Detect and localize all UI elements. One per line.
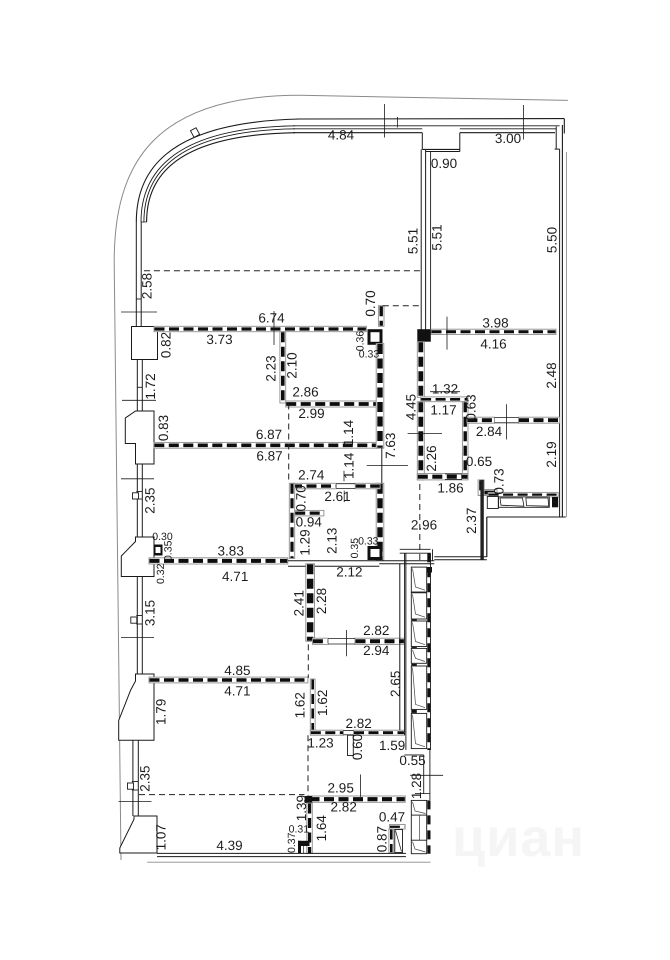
- dim tick storeroom y392: [430, 391, 460, 393]
- niche stub wall (hatched): [484, 490, 497, 496]
- shaft notch left edge: [421, 133, 423, 150]
- svg-text:4.71: 4.71: [222, 569, 248, 584]
- bottom closet dashed border: [427, 800, 430, 853]
- closet column dashed border: [427, 553, 430, 750]
- svg-text:2.82: 2.82: [363, 623, 389, 638]
- svg-text:2.12: 2.12: [336, 565, 362, 580]
- window W3 clip box: [133, 493, 139, 499]
- svg-text:2.58: 2.58: [140, 273, 155, 299]
- column symbol at pier P3: [154, 545, 163, 556]
- wall 3.98/4.16 (hatched): [431, 329, 556, 334]
- wall 2.82 lower east segment (hatched): [354, 730, 405, 735]
- svg-text:0.90: 0.90: [431, 156, 457, 171]
- svg-text:2.13: 2.13: [324, 528, 339, 554]
- svg-text:2.61: 2.61: [324, 489, 350, 504]
- top wall line 3a: [293, 128, 422, 130]
- svg-text:3.00: 3.00: [495, 131, 521, 146]
- dim tick step y794: [415, 793, 430, 795]
- top-right corner step: [555, 127, 557, 150]
- rooms east wall line b: [404, 553, 406, 735]
- svg-text:0.73: 0.73: [492, 468, 507, 494]
- wall left of 2.82 bottom (hatched): [307, 803, 313, 854]
- flue symbol top of corridor: [369, 331, 381, 344]
- svg-text:5.50: 5.50: [545, 227, 560, 253]
- svg-text:5.51: 5.51: [406, 228, 421, 254]
- svg-text:4.45: 4.45: [404, 394, 419, 420]
- closet column top lines: [400, 548, 431, 550]
- top wall line inner b: [460, 132, 555, 134]
- closet compartments: [411, 567, 426, 749]
- wall 2.84 segment east (hatched): [519, 417, 560, 423]
- top wall line 3b: [460, 128, 557, 130]
- wall 4.85/4.71 (hatched): [149, 677, 308, 683]
- dim tick wall 2.84 x506: [505, 404, 507, 439]
- lower wing top wall thin line c: [379, 563, 434, 565]
- dim tick wall 3.98 x447: [446, 317, 448, 350]
- storeroom west wall (hatched): [417, 402, 424, 480]
- wall divider 4.71/2.12 (hatched): [306, 564, 315, 642]
- svg-text:1.64: 1.64: [314, 815, 329, 842]
- svg-text:1.29: 1.29: [298, 529, 313, 555]
- dim tick left wall y479: [121, 478, 154, 480]
- wall corner block 2.95: [305, 796, 313, 803]
- svg-text:4.85: 4.85: [224, 663, 250, 678]
- wall 2.95/2.82 (hatched): [309, 796, 405, 802]
- svg-text:0.70: 0.70: [363, 290, 378, 316]
- lower wing top-right wall line b: [434, 559, 487, 561]
- dim tick top wall x397: [397, 117, 399, 128]
- svg-text:0.65: 0.65: [466, 454, 492, 469]
- svg-text:3.83: 3.83: [218, 544, 244, 559]
- svg-text:2.23: 2.23: [264, 355, 279, 381]
- wall line between top rooms c: [430, 152, 432, 330]
- svg-text:3.15: 3.15: [143, 600, 158, 626]
- top-right corner jog: [555, 148, 560, 150]
- svg-text:2.74: 2.74: [298, 468, 325, 483]
- site boundary offset line (curved corner, top and left): [114, 95, 568, 860]
- svg-text:0.60: 0.60: [350, 734, 365, 760]
- svg-text:1.28: 1.28: [409, 773, 424, 799]
- step outline below closets: [404, 754, 423, 756]
- shaft notch bottom inner: [426, 151, 460, 153]
- window W5 outer line: [132, 740, 134, 816]
- storeroom top wall (hatched): [421, 397, 468, 402]
- wall 3.83 (hatched): [149, 558, 288, 564]
- door leaf 0.87: [395, 830, 403, 853]
- svg-text:6.74: 6.74: [258, 311, 285, 326]
- outer wall curve arc 3: [144, 129, 295, 222]
- bottom wall line outer: [157, 856, 406, 858]
- right wall outer line: [561, 125, 563, 517]
- rooms east wall line a: [399, 564, 401, 730]
- closet column front line: [405, 553, 407, 750]
- kitchen door gap jamb lines: [336, 483, 355, 485]
- svg-text:1.32: 1.32: [432, 382, 458, 397]
- closet column outer edge: [430, 553, 432, 750]
- wall 2.82 lower west segment (hatched): [310, 730, 343, 735]
- svg-text:2.86: 2.86: [292, 385, 318, 400]
- wall 2.86/2.99 (hatched): [286, 401, 378, 407]
- storeroom door gap jamb lines: [445, 473, 462, 475]
- svg-text:0.94: 0.94: [296, 515, 323, 530]
- svg-text:0.35: 0.35: [349, 538, 361, 559]
- svg-text:0.55: 0.55: [399, 753, 425, 768]
- window W3 inner line: [141, 464, 143, 537]
- window W3 outer line: [136, 464, 138, 537]
- lower wing top wall thin line b: [288, 565, 379, 567]
- svg-text:2.95: 2.95: [328, 781, 354, 796]
- svg-text:0.47: 0.47: [379, 810, 405, 825]
- window W4 inner line: [141, 577, 143, 675]
- corridor west niche line: [381, 448, 383, 483]
- window W5 rails: [132, 781, 138, 783]
- door gap lines in wall 2.84: [495, 417, 519, 419]
- wall divider 1.62 (hatched): [310, 679, 315, 730]
- top-right corner outer edge: [563, 119, 565, 134]
- bottom wall line inner: [157, 852, 406, 854]
- svg-text:2.84: 2.84: [476, 424, 503, 439]
- dim tick storeroom y434: [408, 433, 442, 435]
- window in room 2.19 bottom: [499, 497, 550, 507]
- svg-text:1.62: 1.62: [315, 690, 330, 716]
- wall stub 0.47 (hatched): [389, 825, 405, 830]
- dim tick left wall y802: [119, 801, 152, 803]
- pier P4 (chamfered): [119, 674, 154, 740]
- dim tick hall x344b: [343, 491, 345, 503]
- bottom closet block: [411, 800, 426, 853]
- wall 6.87 (hatched): [154, 442, 379, 448]
- svg-text:1.07: 1.07: [153, 824, 168, 850]
- wall 2.82/2.94 east segment (hatched): [355, 638, 404, 644]
- dim tick left wall y637: [121, 637, 154, 639]
- svg-text:0.87: 0.87: [375, 826, 390, 852]
- svg-text:2.41: 2.41: [292, 590, 307, 616]
- niche 0.70 wall stub (hatched): [378, 306, 384, 327]
- wall 2.84 segment west (hatched): [467, 417, 495, 423]
- step wall between wings: [486, 517, 488, 557]
- kitchen wall stub (hatched): [295, 510, 324, 516]
- top wall line 2: [293, 125, 560, 127]
- door gap jamb lines wall 2.82 lower: [344, 730, 354, 732]
- svg-text:0.63: 0.63: [464, 394, 479, 420]
- wall line between top rooms b: [425, 149, 427, 331]
- storeroom bottom wall (hatched): [417, 474, 468, 480]
- svg-text:6.87: 6.87: [256, 427, 282, 442]
- svg-text:2.48: 2.48: [544, 362, 559, 388]
- svg-text:1.14: 1.14: [342, 452, 357, 479]
- right wall inner line: [559, 149, 561, 517]
- outer wall curve arc 4 (interior face): [147, 133, 295, 222]
- svg-text:1.17: 1.17: [430, 403, 456, 418]
- door leaf 0.60: [348, 735, 354, 755]
- pier P1: [132, 327, 158, 360]
- window W3 rails: [136, 491, 142, 493]
- svg-text:0.35: 0.35: [163, 540, 175, 561]
- lower wing top wall thin line a: [288, 560, 434, 562]
- window W5 inner line: [137, 740, 139, 816]
- svg-text:2.82: 2.82: [331, 800, 357, 815]
- svg-text:1.86: 1.86: [437, 481, 463, 496]
- door gap jamb lines wall 2.94: [328, 638, 355, 640]
- site boundary offset line bottom: [147, 861, 430, 863]
- svg-text:2.94: 2.94: [363, 643, 390, 658]
- window W4 rails: [136, 615, 142, 617]
- room 2.37 east wall (solid): [480, 480, 483, 560]
- dim tick hall x344a: [343, 471, 345, 482]
- pier P2 (chamfered): [125, 411, 154, 464]
- wall 2.82/2.94 west segment (hatched): [312, 638, 328, 644]
- wall line between top rooms a: [420, 149, 422, 331]
- svg-text:2.35: 2.35: [138, 765, 153, 791]
- dim tick corridor y465: [367, 465, 408, 467]
- kitchen top wall west segment (hatched): [292, 483, 337, 489]
- dim tick wall 2.95 x360: [360, 775, 362, 797]
- svg-text:1.39: 1.39: [294, 795, 309, 821]
- site boundary offset line right side: [565, 152, 567, 517]
- svg-text:4.84: 4.84: [328, 128, 355, 143]
- svg-text:2.26: 2.26: [424, 445, 439, 471]
- svg-text:2.19: 2.19: [544, 441, 559, 467]
- kitchen east wall (hatched): [376, 483, 384, 560]
- dashed line room 1.86 west: [419, 484, 421, 561]
- svg-text:2.96: 2.96: [411, 518, 437, 533]
- svg-text:4.39: 4.39: [216, 838, 242, 853]
- window W1 jamb line: [141, 221, 146, 223]
- outer wall curve arc 1 (exterior face): [136, 119, 300, 222]
- balcony door jamb block: [552, 497, 558, 507]
- window W1 outer line: [135, 222, 137, 327]
- svg-text:0.33: 0.33: [358, 536, 379, 548]
- svg-text:2.99: 2.99: [298, 406, 324, 421]
- svg-text:6.87: 6.87: [256, 449, 282, 464]
- window W1 rail: [136, 298, 141, 300]
- window W4 clip box: [131, 617, 137, 623]
- dim tick top wall x384: [383, 104, 385, 138]
- door symbol lower wing top wall: [422, 567, 432, 573]
- upper wing bottom edge: [487, 516, 566, 518]
- svg-text:1.59: 1.59: [379, 738, 405, 753]
- corridor east wall (hatched): [417, 342, 424, 398]
- svg-text:1.72: 1.72: [143, 373, 158, 399]
- wall divider rooms 3.73/2.10 (hatched): [280, 332, 286, 403]
- vent marker on curve: [190, 128, 199, 138]
- kitchen west wall (hatched): [289, 483, 294, 558]
- shaft notch bottom: [422, 148, 460, 150]
- window W2 outer line: [136, 360, 138, 412]
- outer wall curve arc 2: [141, 126, 295, 222]
- svg-text:2.37: 2.37: [464, 508, 479, 534]
- svg-text:4.71: 4.71: [224, 684, 250, 699]
- dim tick top wall x524: [523, 105, 525, 140]
- pier P5 (bottom-left corner): [120, 816, 157, 853]
- pier P3 (chamfered): [121, 537, 154, 577]
- svg-text:3.73: 3.73: [206, 332, 232, 347]
- dim tick left wall y400: [122, 399, 156, 401]
- niche vertical wall (hatched): [478, 480, 484, 496]
- room 2.19 bottom wall (hatched): [488, 492, 558, 497]
- svg-text:0.36: 0.36: [354, 331, 366, 352]
- corridor east wall junction block: [417, 329, 431, 342]
- svg-text:2.82: 2.82: [345, 716, 371, 731]
- dashed line room 4.39 top: [139, 794, 305, 796]
- lower wing top-right wall line a: [434, 556, 487, 558]
- svg-text:0.83: 0.83: [156, 415, 171, 441]
- svg-text:0.32: 0.32: [155, 563, 167, 584]
- svg-text:2.10: 2.10: [285, 352, 300, 378]
- dim tick step y775: [410, 774, 443, 776]
- top wall line outer: [297, 118, 564, 120]
- top wall line inner a: [293, 132, 422, 134]
- window W2 inner line: [141, 360, 143, 412]
- dashed line hall west: [288, 404, 290, 484]
- wall 6.74 (hatched): [154, 326, 366, 331]
- flue symbol kitchen corner: [369, 548, 381, 559]
- svg-text:3.98: 3.98: [482, 316, 508, 331]
- window W1 inner line: [140, 222, 142, 327]
- svg-text:0.37: 0.37: [286, 832, 298, 853]
- storeroom east wall (hatched): [462, 402, 468, 474]
- svg-text:4.16: 4.16: [480, 337, 506, 352]
- svg-text:1.23: 1.23: [307, 736, 333, 751]
- svg-text:2.35: 2.35: [143, 487, 158, 513]
- window W5 clip box: [128, 783, 134, 789]
- svg-text:циан: циан: [452, 808, 585, 868]
- dim tick left wall y312: [121, 311, 157, 313]
- bottom-right vertical wall (hatched): [389, 829, 394, 853]
- window W2 rail: [137, 386, 142, 388]
- dashed line 0.70 niche: [383, 305, 421, 307]
- dashed line room 1.62 west: [307, 644, 309, 678]
- door symbol bottom wall: [298, 841, 310, 846]
- shaft notch right edge: [459, 133, 461, 152]
- door leaf at room 2.19 bottom west: [487, 497, 498, 509]
- kitchen top wall east segment (hatched): [355, 483, 380, 489]
- dim tick wall 6.74 x274: [273, 311, 275, 345]
- svg-text:1.14: 1.14: [341, 419, 356, 446]
- window W4 outer line: [136, 577, 138, 675]
- svg-text:2.65: 2.65: [388, 671, 403, 697]
- dashed line room 1.23 west: [307, 735, 309, 796]
- corridor west wall upper (hatched): [376, 344, 384, 449]
- svg-text:0.82: 0.82: [159, 332, 174, 358]
- svg-text:7.63: 7.63: [383, 433, 398, 459]
- dashed line big room: [144, 270, 421, 272]
- svg-text:2.28: 2.28: [314, 588, 329, 614]
- svg-text:0.70: 0.70: [294, 485, 309, 511]
- svg-text:1.79: 1.79: [153, 699, 168, 725]
- svg-text:1.62: 1.62: [292, 692, 307, 718]
- svg-text:5.51: 5.51: [430, 224, 445, 250]
- dim tick wall 2.94 x347: [346, 630, 348, 656]
